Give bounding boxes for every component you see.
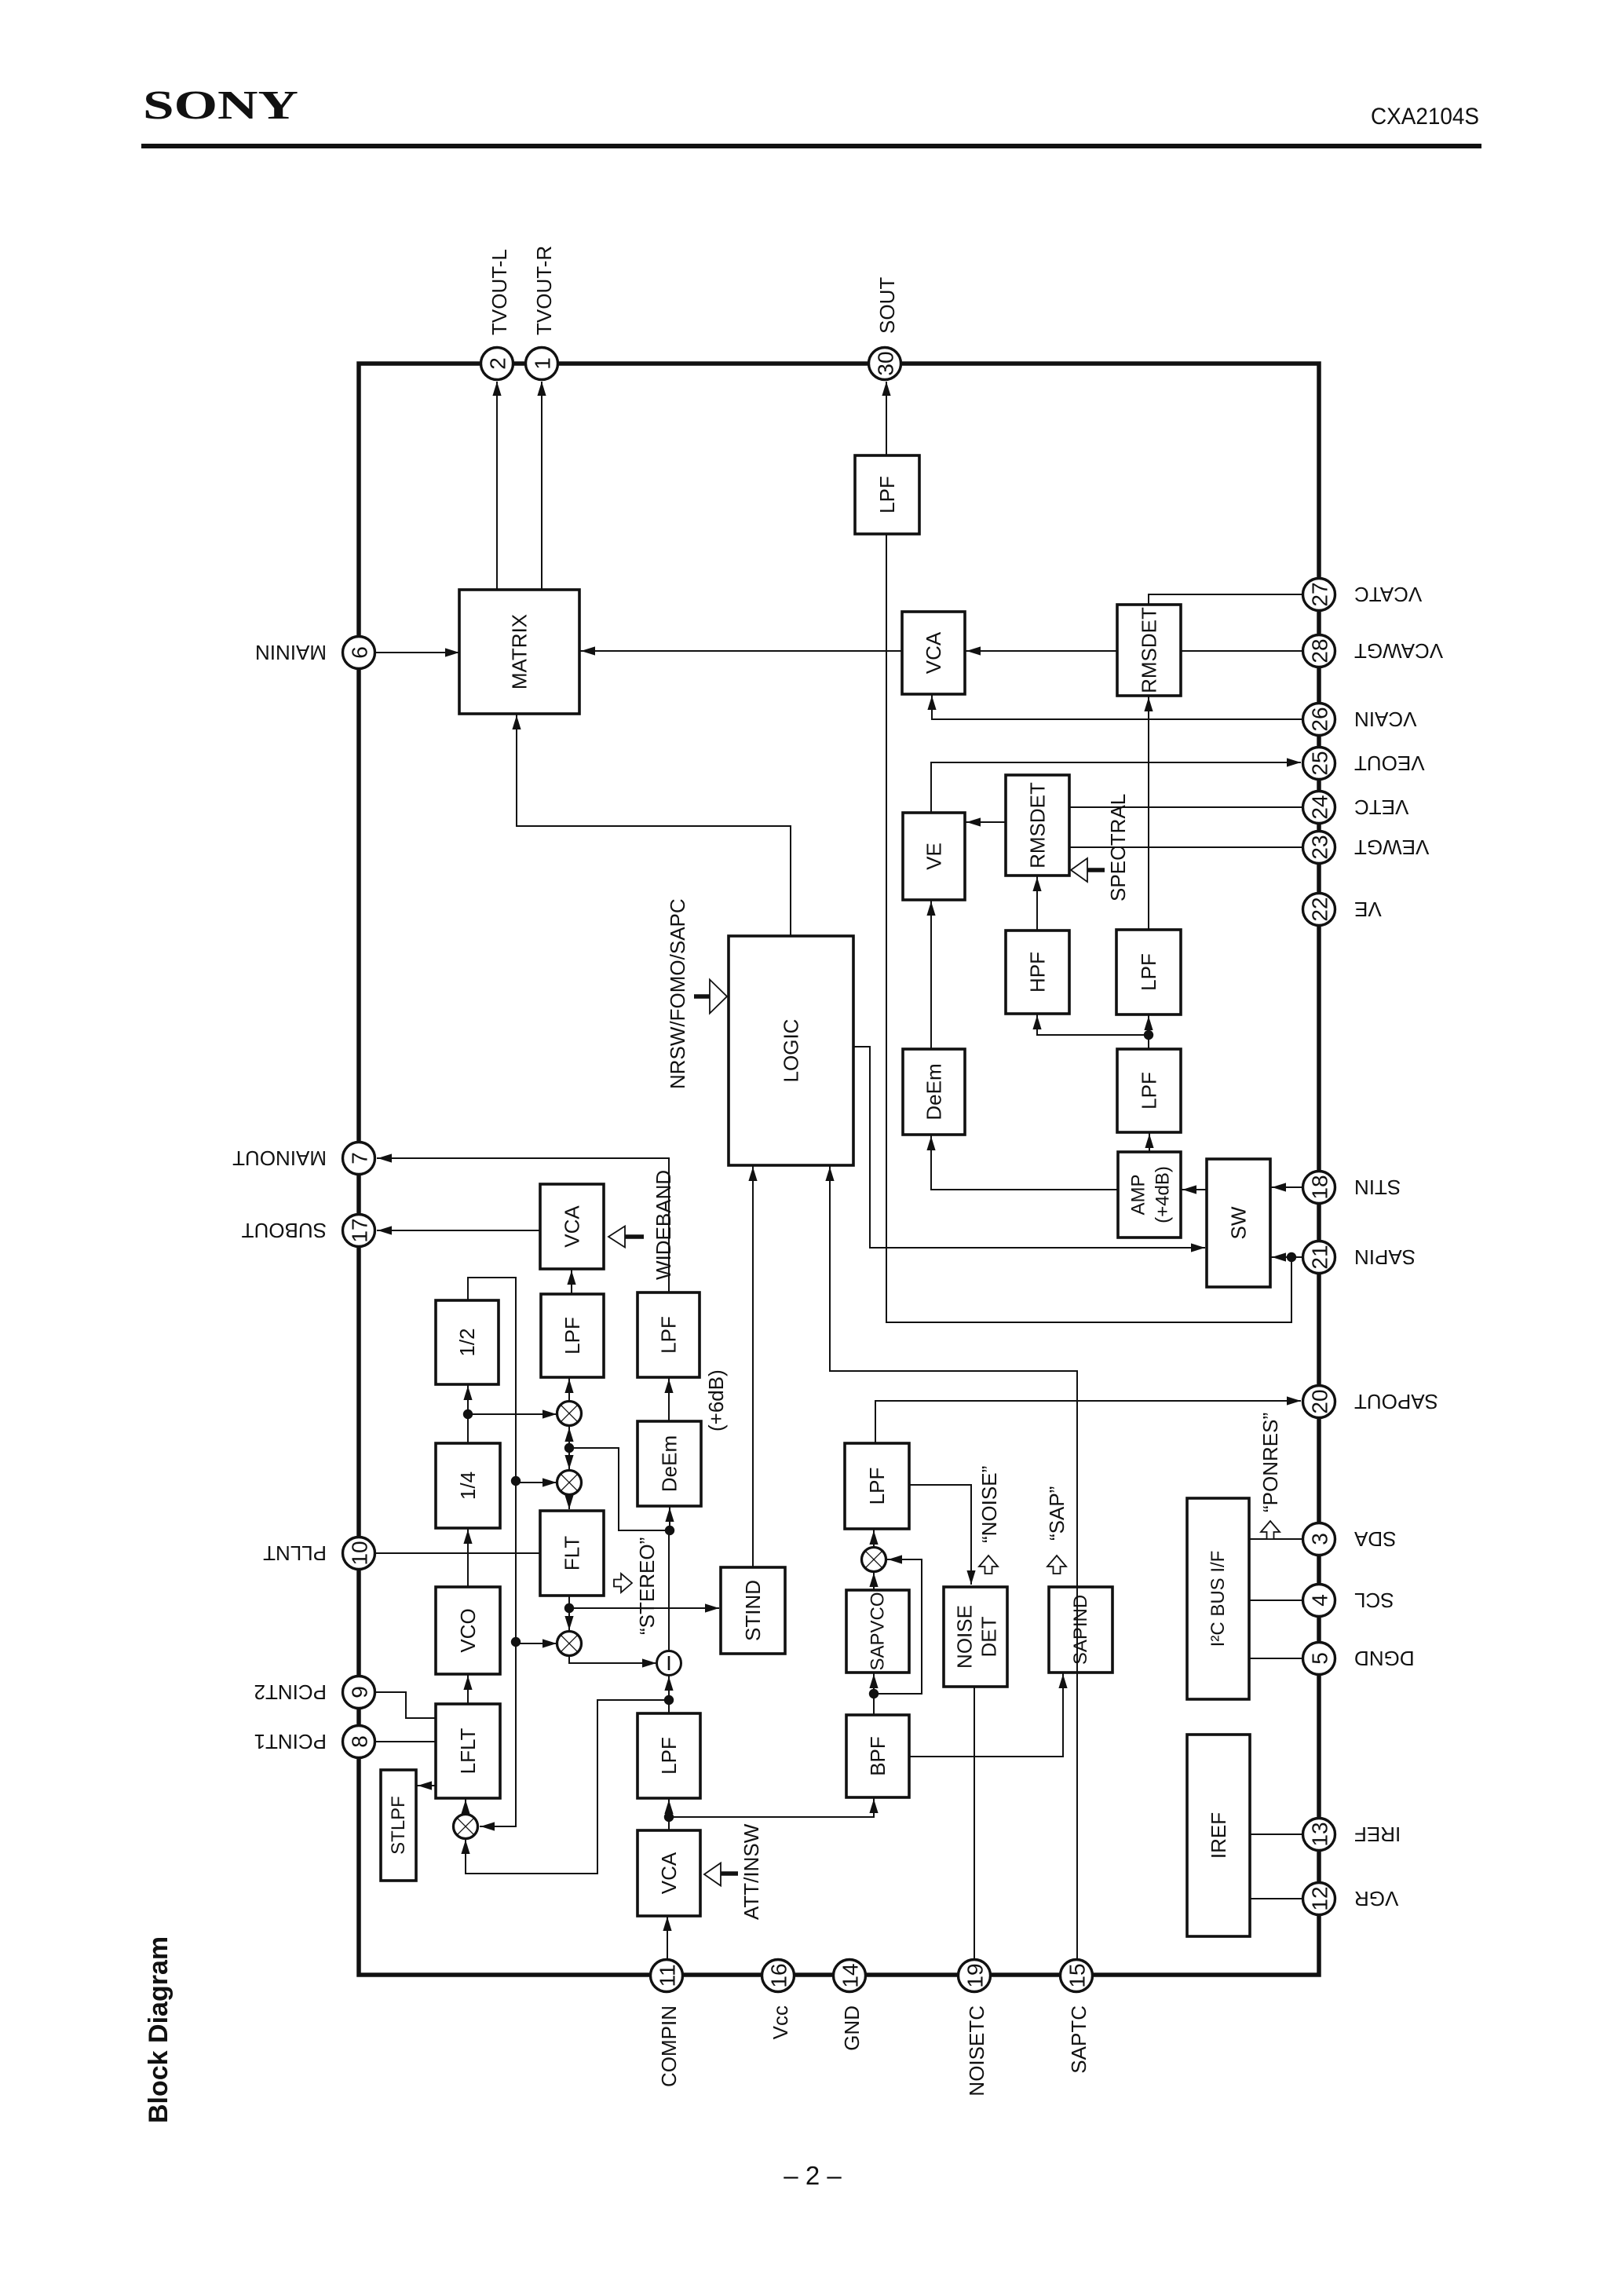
- svg-text:VGR: VGR: [1354, 1887, 1398, 1910]
- svg-text:Vcc: Vcc: [769, 2005, 792, 2039]
- wire mixer 1 to LPF (sub): [564, 1377, 573, 1401]
- block 1/2 divider: [436, 1300, 499, 1384]
- svg-text:MAININ: MAININ: [255, 641, 327, 664]
- label SDA: [1353, 1527, 1396, 1551]
- pin 23 VEWGT: [1303, 832, 1335, 864]
- pin 5 DGND: [1303, 1643, 1335, 1675]
- label Vcc: [769, 2005, 792, 2039]
- svg-text:STIN: STIN: [1354, 1175, 1401, 1199]
- label STEREO: [635, 1537, 659, 1635]
- pin 10 PLLNT: [343, 1537, 375, 1570]
- part number CXA2104S: [1371, 104, 1479, 130]
- wire BPF to SAPVCO: [869, 1673, 879, 1715]
- svg-text:VE: VE: [922, 843, 946, 870]
- wire mixer 3 to subtractor: [569, 1655, 656, 1668]
- svg-text:“PONRES”: “PONRES”: [1259, 1413, 1282, 1512]
- block I2C BUS I/F: [1187, 1498, 1249, 1699]
- svg-text:SAPIN: SAPIN: [1354, 1245, 1416, 1269]
- block STLPF: [381, 1770, 416, 1881]
- block VCA (output VCA): [902, 612, 965, 694]
- wire LPF to RMSDET (VE path): [1144, 696, 1153, 930]
- wire LPF (SAP) to pin 20 SAPOUT: [875, 1396, 1301, 1443]
- svg-text:CXA2104S: CXA2104S: [1371, 104, 1479, 130]
- label TVOUT-R: [532, 246, 556, 335]
- svg-text:“SAP”: “SAP”: [1045, 1486, 1069, 1541]
- label SAPTC: [1067, 2005, 1090, 2074]
- pin 13 IREF: [1303, 1819, 1335, 1851]
- block VCA (COMPIN input): [637, 1830, 700, 1916]
- pin 27 VCATC: [1303, 579, 1335, 611]
- svg-text:DGND: DGND: [1354, 1647, 1415, 1670]
- block LPF (VE path lower): [1117, 1049, 1181, 1132]
- label MAININ: [255, 641, 327, 664]
- svg-text:VCO: VCO: [456, 1608, 480, 1652]
- block VCO: [436, 1587, 500, 1674]
- label VETC: [1354, 795, 1408, 819]
- wire junction to HPF: [1032, 1014, 1149, 1035]
- svg-text:1/2: 1/2: [455, 1328, 479, 1356]
- pin 25 VEOUT: [1303, 748, 1335, 780]
- svg-text:LPF: LPF: [561, 1317, 584, 1355]
- svg-text:22: 22: [1308, 897, 1332, 921]
- label VE: [1354, 898, 1382, 921]
- pin 6 MAININ: [343, 637, 375, 669]
- label VEWGT: [1354, 835, 1429, 859]
- svg-text:DeEm: DeEm: [922, 1063, 946, 1120]
- svg-text:1/4: 1/4: [456, 1472, 480, 1500]
- wire LOGIC to MATRIX: [512, 714, 791, 936]
- block RMSDET (VCA detector): [1117, 605, 1181, 696]
- wire mixer 4 to LFLT: [461, 1798, 469, 1815]
- wire pin 11 COMPIN to VCA: [663, 1916, 671, 1959]
- svg-text:I²C BUS I/F: I²C BUS I/F: [1207, 1551, 1229, 1647]
- pin 15 SAPTC: [1061, 1960, 1093, 1992]
- label COMPIN: [657, 2005, 681, 2087]
- svg-text:27: 27: [1308, 582, 1332, 606]
- wire subtractor to DeEm junction: [665, 1526, 674, 1651]
- mixer M3 (subtractor input): [557, 1632, 582, 1656]
- pin 2 TVOUT-L: [481, 348, 513, 380]
- pin 26 VCAIN: [1303, 704, 1335, 736]
- block IREF: [1187, 1735, 1250, 1936]
- wire IREF to pin 12 VGR: [1250, 1898, 1304, 1899]
- svg-text:MATRIX: MATRIX: [508, 614, 532, 689]
- svg-text:SAPVCO: SAPVCO: [868, 1592, 889, 1670]
- label +6dB: [704, 1369, 728, 1431]
- wire LFLT to VCO: [463, 1674, 472, 1704]
- header rule: [141, 144, 1481, 148]
- block FLT: [540, 1511, 604, 1596]
- svg-text:STLPF: STLPF: [388, 1796, 409, 1855]
- svg-text:SONY: SONY: [143, 83, 298, 128]
- wire SAPVCO to SAP mixer: [869, 1571, 878, 1590]
- block LPF (SAP path): [845, 1443, 909, 1529]
- svg-text:SW: SW: [1227, 1206, 1251, 1239]
- wire VCO to 1/4 divider: [463, 1528, 472, 1587]
- svg-text:19: 19: [963, 1963, 988, 1987]
- svg-text:IREF: IREF: [1354, 1823, 1401, 1846]
- block LPF (sub path): [541, 1294, 604, 1377]
- wire pin 24 VETC to RMSDET: [1069, 806, 1302, 808]
- subtractor node (minus circle): [657, 1651, 681, 1676]
- label SUBOUT: [242, 1219, 327, 1242]
- svg-text:LPF: LPF: [657, 1737, 681, 1775]
- pin 22 VE: [1303, 894, 1335, 926]
- svg-text:SCL: SCL: [1354, 1589, 1394, 1612]
- wire pin 8 PCINT1 to LFLT: [374, 1741, 436, 1742]
- wire rail to mixer 3: [511, 1637, 557, 1648]
- IC boundary box: [359, 364, 1319, 1975]
- wire BPF to SAPIND: [909, 1673, 1068, 1757]
- block SW: [1207, 1159, 1270, 1287]
- label IREF: [1354, 1823, 1401, 1846]
- block SAPVCO: [846, 1590, 909, 1673]
- label SPECTRAL: [1106, 794, 1130, 901]
- svg-text:TVOUT-L: TVOUT-L: [488, 249, 511, 335]
- svg-text:GND: GND: [840, 2005, 864, 2051]
- svg-text:3: 3: [1308, 1533, 1332, 1545]
- svg-text:LFLT: LFLT: [456, 1728, 480, 1775]
- svg-text:VCATC: VCATC: [1354, 583, 1422, 606]
- wire LPF (SAP) to NOISE DET: [909, 1485, 976, 1585]
- svg-text:VCA: VCA: [657, 1852, 681, 1894]
- block STIND: [721, 1567, 785, 1654]
- block RMSDET (VE detector): [1006, 775, 1069, 876]
- svg-text:VCA: VCA: [561, 1205, 584, 1248]
- label MAINOUT: [232, 1146, 327, 1170]
- label DGND: [1354, 1647, 1415, 1670]
- svg-text:LOGIC: LOGIC: [780, 1019, 803, 1083]
- svg-text:LPF: LPF: [875, 476, 899, 514]
- wire pin 21 SAPIN to SW: [1270, 1252, 1302, 1262]
- wire AMP to LPF (VE lower): [1145, 1132, 1153, 1152]
- wire pin 18 STIN to SW: [1270, 1183, 1302, 1191]
- svg-text:23: 23: [1308, 835, 1332, 859]
- svg-text:VEWGT: VEWGT: [1354, 835, 1429, 859]
- svg-text:4: 4: [1308, 1594, 1332, 1607]
- svg-text:PCINT1: PCINT1: [254, 1730, 327, 1753]
- wire RMSDET to VCA: [965, 646, 1117, 655]
- svg-text:DeEm: DeEm: [658, 1435, 681, 1492]
- wire SAPIN junction to LPF (SOUT): [886, 534, 1291, 1322]
- svg-text:MAINOUT: MAINOUT: [232, 1146, 327, 1170]
- svg-text:ATT/INSW: ATT/INSW: [740, 1823, 763, 1920]
- svg-text:11: 11: [656, 1964, 680, 1987]
- svg-text:LPF: LPF: [657, 1316, 681, 1354]
- svg-text:IREF: IREF: [1207, 1812, 1230, 1859]
- control input SPECTRAL at RMSDET: [1071, 858, 1105, 882]
- wire MATRIX to pin 2 TVOUT-L: [492, 382, 501, 590]
- wire IREF to pin 13 IREF: [1250, 1834, 1304, 1835]
- pin 18 STIN: [1303, 1172, 1335, 1204]
- svg-text:(+6dB): (+6dB): [704, 1369, 728, 1431]
- wire MATRIX to pin 1 TVOUT-R: [537, 382, 546, 590]
- label GND: [840, 2005, 864, 2051]
- block LPF (VE path upper): [1116, 930, 1181, 1015]
- svg-text:1: 1: [531, 357, 555, 370]
- wire SAPVCO feedback to mixer: [874, 1555, 922, 1694]
- svg-text:AMP: AMP: [1128, 1174, 1149, 1215]
- svg-text:“NOISE”: “NOISE”: [977, 1466, 1001, 1543]
- svg-text:FLT: FLT: [561, 1536, 584, 1570]
- block LPF (+6dB path): [637, 1292, 700, 1377]
- wire LFLT to STLPF: [416, 1781, 436, 1790]
- svg-text:LPF: LPF: [1137, 953, 1160, 991]
- mixer M2 (FLT input): [557, 1471, 582, 1495]
- wire VCA to MATRIX: [579, 646, 902, 655]
- wire SW to AMP: [1181, 1185, 1207, 1194]
- svg-text:SAPIND: SAPIND: [1070, 1595, 1091, 1665]
- pin 12 VGR: [1303, 1883, 1335, 1915]
- svg-text:STIND: STIND: [741, 1580, 765, 1641]
- svg-text:SUBOUT: SUBOUT: [242, 1219, 327, 1242]
- pin 16 Vcc: [762, 1960, 795, 1992]
- wire RMSDET to VE: [965, 817, 1006, 826]
- heading Block Diagram: [144, 1936, 174, 2123]
- label NOISE: [977, 1466, 1001, 1543]
- svg-text:– 2 –: – 2 –: [784, 2161, 842, 2190]
- wire pin 6 MAININ to MATRIX: [374, 648, 459, 656]
- block LPF (COMPIN path): [637, 1713, 700, 1798]
- svg-text:15: 15: [1065, 1963, 1090, 1987]
- svg-text:NRSW/FOMO/SAPC: NRSW/FOMO/SAPC: [666, 898, 689, 1089]
- block HPF: [1006, 930, 1069, 1014]
- wire pin 26 VCAIN to VCA: [927, 694, 1302, 719]
- label VEOUT: [1354, 751, 1425, 775]
- block VCA (sub output): [540, 1184, 604, 1269]
- label NOISETC: [965, 2005, 988, 2097]
- wire LPF (COMPIN) junction to BPF: [669, 1797, 879, 1817]
- wire STIND to LOGIC: [748, 1165, 757, 1567]
- wire LPF (COMPIN) to subtractor: [664, 1675, 674, 1713]
- svg-text:NOISE: NOISE: [953, 1605, 977, 1669]
- label STIN: [1354, 1175, 1401, 1199]
- svg-text:30: 30: [874, 351, 898, 375]
- pin 11 COMPIN: [651, 1960, 683, 1992]
- mixer M5 (SAP VCO mixer): [862, 1548, 886, 1572]
- wire pin 27 VCATC to RMSDET: [1149, 594, 1302, 605]
- label SOUT: [875, 277, 899, 334]
- wire AMP to DeEm: [926, 1135, 1118, 1190]
- label VCAWGT: [1354, 639, 1443, 663]
- label SCL: [1354, 1589, 1394, 1612]
- pin 8 PCINT1: [343, 1726, 375, 1758]
- block DeEm (VE path): [903, 1049, 965, 1135]
- label VCATC: [1354, 583, 1422, 606]
- block AMP (+4dB): [1118, 1152, 1181, 1238]
- control input ATT/INSW at VCA (COMPIN): [704, 1863, 738, 1886]
- svg-text:SPECTRAL: SPECTRAL: [1106, 794, 1130, 901]
- wire through SAPIND (pin 15 net): [1076, 1587, 1078, 1673]
- svg-text:2: 2: [486, 357, 510, 370]
- label VCAIN: [1354, 707, 1416, 731]
- svg-text:SDA: SDA: [1353, 1527, 1396, 1551]
- label PONRES: [1259, 1413, 1282, 1512]
- wire rail to mixer 2: [511, 1476, 557, 1487]
- wire pin 23 VEWGT to RMSDET: [1069, 846, 1302, 848]
- wire LOGIC to SW: [853, 1047, 1205, 1252]
- pin 3 SDA: [1303, 1523, 1335, 1556]
- pin 19 NOISETC: [959, 1960, 991, 1992]
- control input WIDEBAND at VCA (sub): [608, 1227, 644, 1248]
- wire mixer 2 to FLT: [564, 1494, 573, 1509]
- label VGR: [1354, 1887, 1398, 1910]
- svg-text:RMSDET: RMSDET: [1026, 782, 1050, 868]
- pin 20 SAPOUT: [1303, 1386, 1335, 1418]
- wire HPF to RMSDET: [1032, 876, 1041, 930]
- wire 1/2 divider to mixer rail: [468, 1278, 516, 1831]
- status arrow NOISE: [979, 1556, 998, 1574]
- svg-text:LPF: LPF: [1138, 1072, 1161, 1110]
- svg-text:NOISETC: NOISETC: [965, 2005, 988, 2097]
- wire junction to mixer 2: [564, 1443, 574, 1469]
- wire LPF to pin 30 SOUT: [882, 382, 890, 455]
- svg-text:VETC: VETC: [1354, 795, 1408, 819]
- label PCINT1: [254, 1730, 327, 1753]
- svg-text:WIDEBAND: WIDEBAND: [652, 1170, 675, 1280]
- svg-text:SOUT: SOUT: [875, 277, 899, 334]
- svg-text:VE: VE: [1354, 898, 1382, 921]
- wire LPF (+6dB) to pin 7 MAINOUT: [377, 1153, 669, 1292]
- wire SAPIND to pin 15 SAPTC: [1076, 1673, 1078, 1960]
- svg-text:21: 21: [1308, 1245, 1332, 1269]
- wire DeEm to VE: [926, 900, 935, 1049]
- block LPF (SOUT filter): [855, 455, 919, 534]
- mixer M4 (LFLT input): [454, 1815, 478, 1839]
- pin 30 SOUT: [869, 348, 901, 380]
- block NOISE DET: [944, 1587, 1007, 1687]
- svg-text:16: 16: [767, 1963, 791, 1987]
- wire VCA (sub) to pin 17 SUBOUT: [377, 1226, 540, 1234]
- svg-text:18: 18: [1308, 1175, 1332, 1199]
- wire pin 28 VCAWGT to RMSDET: [1181, 650, 1302, 652]
- wire mixer junction to DeEm junction: [569, 1448, 670, 1530]
- svg-text:17: 17: [348, 1218, 372, 1242]
- pin 24 VETC: [1303, 792, 1335, 824]
- pin 28 VCAWGT: [1303, 635, 1335, 667]
- label WIDEBAND: [652, 1170, 675, 1280]
- mixer M1 (pilot x rail): [557, 1402, 582, 1426]
- label PCINT2: [254, 1680, 327, 1704]
- svg-text:(+4dB): (+4dB): [1153, 1166, 1174, 1223]
- svg-text:8: 8: [348, 1735, 372, 1748]
- wire FLT to junction: [564, 1596, 574, 1613]
- svg-text:PLLNT: PLLNT: [263, 1541, 327, 1565]
- wire subtractor branch to mixer 4: [461, 1700, 669, 1874]
- wire junction to STIND: [569, 1603, 719, 1612]
- svg-text:TVOUT-R: TVOUT-R: [532, 246, 556, 335]
- wire junction to mixer 1: [564, 1426, 573, 1448]
- svg-text:13: 13: [1308, 1822, 1332, 1846]
- svg-text:7: 7: [348, 1152, 372, 1164]
- block LOGIC: [729, 936, 853, 1165]
- label TVOUT-L: [488, 249, 511, 335]
- label ATT/INSW: [740, 1823, 763, 1920]
- wire DeEm to LPF (+6dB): [664, 1377, 673, 1421]
- pin 1 TVOUT-R: [526, 348, 558, 380]
- wire I2C BUS to pin 3 SDA: [1249, 1538, 1304, 1540]
- block VE: [903, 813, 965, 900]
- status arrow PONRES: [1261, 1521, 1280, 1539]
- block 1/4 divider: [436, 1443, 500, 1528]
- svg-text:20: 20: [1308, 1389, 1332, 1413]
- svg-text:VEOUT: VEOUT: [1354, 751, 1425, 775]
- svg-text:28: 28: [1308, 638, 1332, 663]
- svg-text:“STEREO”: “STEREO”: [635, 1537, 659, 1635]
- label SAPOUT: [1354, 1390, 1438, 1413]
- svg-text:PCINT2: PCINT2: [254, 1680, 327, 1704]
- pin 9 PCINT2: [343, 1676, 375, 1709]
- wire SAP mixer to LPF (SAP): [869, 1529, 878, 1548]
- wire 1/4 to 1/2 divider: [463, 1384, 473, 1443]
- wire I2C BUS to pin 5 DGND: [1249, 1658, 1304, 1659]
- wire LPF (sub) to VCA (sub): [567, 1269, 575, 1294]
- SONY logo: [143, 83, 298, 128]
- svg-text:Block Diagram: Block Diagram: [144, 1936, 174, 2123]
- wire pin 10 PLLNT to FLT: [374, 1552, 540, 1554]
- wire divider junction to mixer 1: [468, 1409, 557, 1418]
- status arrow SAP: [1047, 1556, 1066, 1574]
- svg-text:6: 6: [348, 646, 372, 659]
- svg-text:SAPTC: SAPTC: [1067, 2005, 1090, 2074]
- block SAPIND: [1049, 1587, 1112, 1673]
- wire VCA (COMPIN) to LPF (COMPIN): [664, 1798, 674, 1830]
- label SAPIND: [1070, 1595, 1091, 1665]
- pin 7 MAINOUT: [343, 1143, 375, 1175]
- svg-text:25: 25: [1308, 751, 1332, 775]
- svg-text:9: 9: [348, 1686, 372, 1698]
- pin 17 SUBOUT: [343, 1215, 375, 1247]
- svg-text:24: 24: [1308, 795, 1332, 819]
- svg-text:12: 12: [1308, 1886, 1332, 1910]
- svg-text:DET: DET: [977, 1616, 1001, 1657]
- svg-text:26: 26: [1308, 707, 1332, 731]
- page number - 2 -: [784, 2161, 842, 2190]
- label NRSW/FOMO/SAPC: [666, 898, 689, 1089]
- svg-text:VCAIN: VCAIN: [1354, 707, 1416, 731]
- pin 21 SAPIN: [1303, 1241, 1335, 1274]
- label SAPIN: [1354, 1245, 1416, 1269]
- svg-text:SAPOUT: SAPOUT: [1354, 1390, 1438, 1413]
- svg-text:5: 5: [1308, 1652, 1332, 1665]
- wire LPF to LPF junction (VE path): [1144, 1015, 1153, 1049]
- block LFLT: [436, 1704, 500, 1798]
- pin 14 GND: [834, 1960, 866, 1992]
- wire NOISE DET to pin 19 NOISETC: [974, 1687, 975, 1960]
- control input NRSW/FOMO/SAPC at LOGIC: [694, 980, 727, 1014]
- svg-text:HPF: HPF: [1026, 952, 1050, 993]
- wire junction to mixer 3: [564, 1608, 573, 1630]
- svg-text:LPF: LPF: [865, 1468, 889, 1505]
- svg-text:BPF: BPF: [866, 1736, 890, 1776]
- status arrow STEREO: [614, 1574, 632, 1592]
- svg-text:COMPIN: COMPIN: [657, 2005, 681, 2087]
- wire SAPIND to LOGIC: [825, 1165, 1077, 1587]
- wire junction to DeEm (main): [665, 1506, 674, 1530]
- svg-text:RMSDET: RMSDET: [1138, 607, 1161, 693]
- svg-text:VCAWGT: VCAWGT: [1354, 639, 1443, 663]
- svg-text:VCA: VCA: [922, 631, 945, 674]
- pin 4 SCL: [1303, 1585, 1335, 1617]
- wire I2C BUS to pin 4 SCL: [1249, 1600, 1304, 1601]
- block BPF: [846, 1715, 909, 1797]
- label SAP: [1045, 1486, 1069, 1541]
- wire VE to pin 25 VEOUT: [931, 758, 1301, 813]
- block DeEm (main path): [637, 1421, 701, 1506]
- label PLLNT: [263, 1541, 327, 1565]
- svg-text:14: 14: [838, 1963, 863, 1987]
- svg-text:10: 10: [348, 1541, 372, 1565]
